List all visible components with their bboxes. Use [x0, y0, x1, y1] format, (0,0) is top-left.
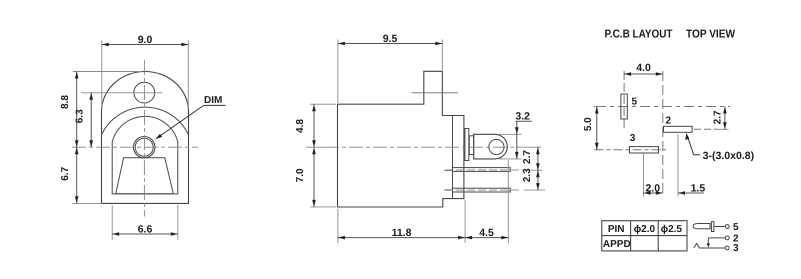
pin 2 center line: [456, 189, 522, 191]
svg-text:2.7: 2.7: [713, 110, 724, 124]
svg-text:5: 5: [632, 96, 638, 107]
small circle center line: [81, 92, 162, 94]
pad 3 (slot): [630, 147, 659, 153]
pad 2 center vertical (1.5 extension): [677, 134, 679, 197]
dimension 4.0: [624, 62, 663, 76]
pin 2 terminal circle: [725, 236, 729, 240]
svg-text:6.6: 6.6: [138, 224, 153, 236]
svg-text:5.0: 5.0: [583, 117, 594, 131]
dimension 6.3: [75, 93, 93, 147]
internal vertical edge: [452, 116, 454, 199]
dimension 9.5: [338, 33, 442, 103]
dimension 4.8: [295, 104, 336, 147]
svg-text:2.0: 2.0: [645, 182, 660, 194]
barrel inner circle: [135, 138, 153, 156]
svg-text:2.7: 2.7: [522, 150, 533, 164]
pin 2 switch drop wire: [707, 238, 709, 244]
pad 2 center line: [694, 128, 717, 130]
svg-text:ϕ2.0: ϕ2.0: [634, 224, 656, 235]
horizontal center line: [72, 146, 198, 148]
pin 5 flange bar: [711, 222, 714, 232]
table frame: [602, 221, 687, 251]
svg-text:TOP VIEW: TOP VIEW: [686, 28, 735, 40]
svg-text:DIM: DIM: [204, 95, 222, 106]
dimension 2.0: [644, 182, 663, 195]
pin 1 center line: [456, 169, 522, 171]
pin 1: [453, 168, 511, 172]
dimension 2.7 (pcb): [713, 107, 727, 130]
vertical center line: [143, 60, 145, 217]
dimension 6.7: [60, 147, 102, 203]
svg-text:3.2: 3.2: [515, 111, 530, 123]
svg-text:3-(3.0x0.8): 3-(3.0x0.8): [703, 150, 755, 162]
body outline with top tab and bottom notch: [338, 71, 464, 207]
pad 2 (slot): [664, 126, 693, 132]
dimension 9.0: [102, 34, 189, 108]
body inner outline: [112, 116, 178, 194]
svg-text:ϕ2.5: ϕ2.5: [661, 224, 683, 235]
dimensions 11.8 / 4.5: [338, 160, 508, 243]
table column line 1: [630, 221, 632, 251]
dimension 8.8: [60, 72, 142, 148]
dimension 3.2: [499, 111, 532, 159]
pad 5 (slot): [621, 94, 627, 119]
svg-text:11.8: 11.8: [392, 227, 412, 239]
svg-text:7.0: 7.0: [295, 168, 306, 182]
svg-text:2: 2: [666, 116, 672, 127]
pin 2 switch arrow: [707, 243, 710, 247]
svg-text:6.3: 6.3: [75, 109, 86, 123]
table column line 2: [657, 221, 659, 251]
solder lug with rounded end: [474, 134, 508, 159]
horizontal center line: [325, 146, 520, 148]
table row line: [602, 235, 687, 237]
svg-text:4.8: 4.8: [295, 119, 306, 133]
pin 3 spring contact: [694, 244, 726, 249]
dimension 1.5: [678, 182, 705, 195]
dimension 7.0: [295, 147, 336, 207]
pin 2 wire: [708, 237, 725, 239]
svg-text:6.7: 6.7: [60, 166, 71, 180]
svg-text:4.0: 4.0: [636, 62, 651, 74]
pad 3 center line: [595, 149, 667, 151]
svg-text:9.0: 9.0: [138, 34, 153, 46]
horizontal crosshair center line: [596, 106, 730, 108]
vertical crosshair center line: [662, 71, 664, 194]
svg-text:8.8: 8.8: [60, 95, 71, 109]
pin 5 terminal circle: [725, 225, 729, 229]
big inner arc: [102, 107, 188, 134]
svg-text:3: 3: [733, 243, 739, 254]
label 3-(3.0x0.8) with leader: [685, 133, 754, 162]
pin 3 terminal circle: [725, 246, 729, 250]
dimension 5.0: [583, 107, 600, 150]
trapezoid insert: [116, 158, 174, 194]
lug hole: [489, 139, 504, 154]
svg-text:1.5: 1.5: [691, 182, 706, 194]
top small circle: [134, 82, 155, 103]
neck: [469, 136, 473, 155]
svg-text:5: 5: [733, 222, 739, 233]
flange plate: [465, 129, 469, 161]
svg-text:APPD: APPD: [603, 239, 631, 250]
pin 5 barrel symbol: [693, 224, 710, 229]
svg-text:9.5: 9.5: [383, 33, 398, 45]
barrel outer circle: [134, 137, 155, 158]
svg-text:PIN: PIN: [608, 224, 625, 235]
svg-text:3: 3: [630, 133, 636, 144]
svg-text:2.3: 2.3: [522, 168, 533, 182]
dimension 6.6: [112, 205, 178, 240]
pin 5 wire: [714, 226, 726, 228]
dimensions 2.7 / 2.3 (chained): [522, 147, 540, 190]
DIM label and leader: [155, 95, 225, 139]
svg-text:P.C.B LAYOUT: P.C.B LAYOUT: [605, 28, 673, 40]
pad 3 center vertical (2.0 extension): [643, 154, 645, 197]
body outer outline: [102, 72, 189, 204]
line crossing tab: [412, 92, 458, 94]
pin 2: [453, 188, 511, 192]
pad 5 center line: [623, 71, 625, 129]
svg-text:4.5: 4.5: [479, 227, 494, 239]
